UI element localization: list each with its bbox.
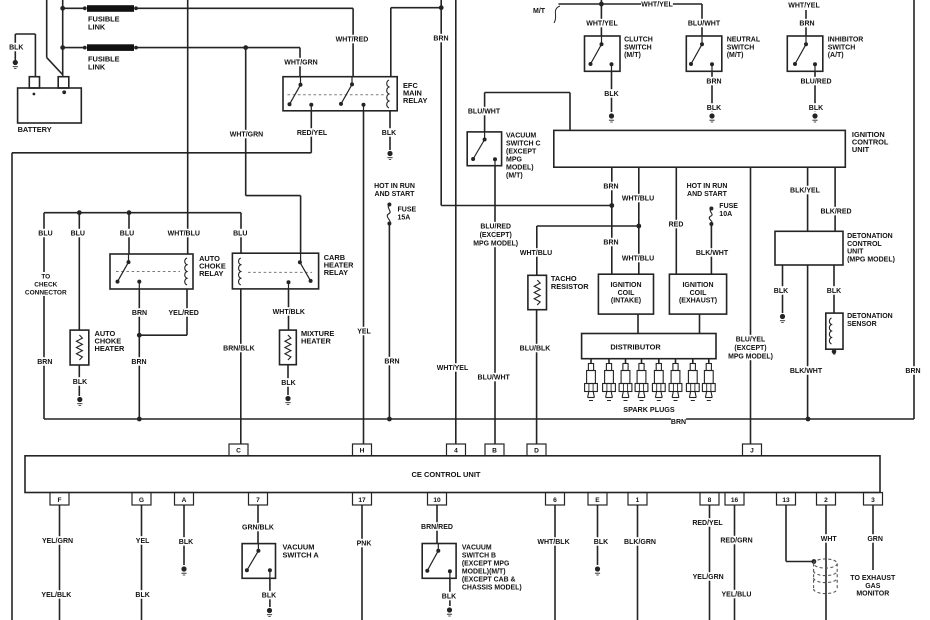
svg-text:(EXCEPT): (EXCEPT) <box>734 345 766 352</box>
svg-text:BLK: BLK <box>179 539 193 546</box>
svg-text:YEL/RED: YEL/RED <box>169 310 199 317</box>
svg-text:BLK: BLK <box>809 105 823 112</box>
svg-text:BRN: BRN <box>384 359 399 366</box>
svg-text:WHT/YEL: WHT/YEL <box>641 2 673 9</box>
svg-text:YEL: YEL <box>357 329 371 336</box>
svg-text:HEATER: HEATER <box>95 344 125 353</box>
svg-text:7: 7 <box>256 497 260 504</box>
svg-text:J: J <box>750 448 754 455</box>
svg-text:BRN: BRN <box>671 419 686 426</box>
svg-text:MODEL): MODEL) <box>506 165 534 172</box>
svg-text:RED/YEL: RED/YEL <box>692 520 723 527</box>
svg-text:CLUTCH: CLUTCH <box>624 37 653 44</box>
svg-text:SWITCH A: SWITCH A <box>283 550 320 559</box>
svg-text:RED: RED <box>669 222 684 229</box>
svg-text:VACUUM: VACUUM <box>462 545 492 552</box>
svg-text:BLK: BLK <box>604 91 618 98</box>
svg-text:BRN: BRN <box>131 359 146 366</box>
svg-text:A: A <box>182 497 187 504</box>
svg-text:MPG MODEL): MPG MODEL) <box>473 241 518 248</box>
svg-text:10A: 10A <box>719 211 732 218</box>
svg-text:C: C <box>236 448 241 455</box>
svg-text:TO EXHAUST: TO EXHAUST <box>850 575 896 582</box>
svg-text:(EXHAUST): (EXHAUST) <box>679 298 717 305</box>
svg-text:CONTROL: CONTROL <box>847 241 882 248</box>
svg-text:(EXCEPT CAB &: (EXCEPT CAB & <box>462 577 516 584</box>
svg-text:RELAY: RELAY <box>199 269 223 278</box>
svg-text:DISTRIBUTOR: DISTRIBUTOR <box>610 343 661 352</box>
svg-text:BLK/YEL: BLK/YEL <box>790 188 821 195</box>
svg-text:17: 17 <box>358 497 366 504</box>
svg-text:WHT/GRN: WHT/GRN <box>284 60 317 67</box>
svg-text:(INTAKE): (INTAKE) <box>611 298 641 305</box>
svg-text:HEATER: HEATER <box>301 337 331 346</box>
svg-text:3: 3 <box>871 497 875 504</box>
svg-text:BLK/WHT: BLK/WHT <box>790 368 823 375</box>
svg-text:BLK: BLK <box>281 380 295 387</box>
svg-text:BLU/RED: BLU/RED <box>480 224 511 231</box>
svg-text:INHIBITOR: INHIBITOR <box>828 37 864 44</box>
svg-text:FUSE: FUSE <box>398 207 417 214</box>
svg-text:CHECK: CHECK <box>34 281 57 288</box>
svg-text:RELAY: RELAY <box>324 268 348 277</box>
svg-text:BLU/WHT: BLU/WHT <box>468 109 501 116</box>
svg-text:BLK: BLK <box>73 379 87 386</box>
svg-text:LINK: LINK <box>88 62 106 71</box>
svg-text:WHT/BLK: WHT/BLK <box>537 539 569 546</box>
svg-text:RED/YEL: RED/YEL <box>297 130 328 137</box>
svg-text:BLU/BLK: BLU/BLK <box>520 346 551 353</box>
svg-text:BRN/BLK: BRN/BLK <box>223 346 255 353</box>
svg-text:DETONATION: DETONATION <box>847 313 893 320</box>
svg-text:BLU: BLU <box>38 231 52 238</box>
svg-text:CHASSIS MODEL): CHASSIS MODEL) <box>462 585 522 592</box>
svg-text:VACUUM: VACUUM <box>506 133 536 140</box>
svg-text:IGNITION: IGNITION <box>610 282 641 289</box>
svg-text:10: 10 <box>433 497 441 504</box>
svg-text:BLK: BLK <box>827 288 841 295</box>
svg-text:AND START: AND START <box>375 191 416 198</box>
svg-text:BRN/RED: BRN/RED <box>421 524 453 531</box>
svg-text:SWITCH: SWITCH <box>828 44 856 51</box>
svg-text:WHT/BLU: WHT/BLU <box>168 231 200 238</box>
svg-text:SENSOR: SENSOR <box>847 321 877 328</box>
svg-text:WHT/BLU: WHT/BLU <box>622 256 654 263</box>
svg-text:RESISTOR: RESISTOR <box>551 282 589 291</box>
svg-text:BRN: BRN <box>132 310 147 317</box>
svg-text:(EXCEPT): (EXCEPT) <box>480 232 512 239</box>
svg-text:BLK/GRN: BLK/GRN <box>624 539 656 546</box>
svg-text:BLK: BLK <box>9 45 23 52</box>
svg-text:WHT: WHT <box>821 536 838 543</box>
svg-text:MODEL)(M/T): MODEL)(M/T) <box>462 569 506 576</box>
svg-text:BATTERY: BATTERY <box>18 125 52 134</box>
svg-text:BLU/WHT: BLU/WHT <box>688 21 721 28</box>
svg-text:BRN: BRN <box>603 240 618 247</box>
svg-text:SWITCH: SWITCH <box>624 44 652 51</box>
svg-text:CE CONTROL UNIT: CE CONTROL UNIT <box>411 470 480 479</box>
svg-text:LINK: LINK <box>88 22 106 31</box>
svg-text:F: F <box>57 497 61 504</box>
svg-text:(M/T): (M/T) <box>624 52 641 59</box>
svg-text:HOT IN RUN: HOT IN RUN <box>374 183 415 190</box>
svg-text:WHT/BLK: WHT/BLK <box>273 309 305 316</box>
svg-text:PNK: PNK <box>357 541 372 548</box>
svg-text:TO: TO <box>41 273 50 280</box>
svg-text:(M/T): (M/T) <box>506 173 523 180</box>
svg-text:13: 13 <box>782 497 790 504</box>
svg-text:BLK: BLK <box>442 594 456 601</box>
svg-text:BLK/WHT: BLK/WHT <box>696 250 729 257</box>
svg-text:BRN: BRN <box>37 359 52 366</box>
svg-text:(M/T): (M/T) <box>727 52 744 59</box>
svg-text:GRN: GRN <box>867 536 883 543</box>
svg-text:RELAY: RELAY <box>403 96 427 105</box>
svg-text:IGNITION: IGNITION <box>682 282 713 289</box>
svg-text:BLK: BLK <box>774 288 788 295</box>
svg-text:BLU/WHT: BLU/WHT <box>478 375 511 382</box>
svg-text:YEL: YEL <box>136 538 150 545</box>
svg-text:YEL/BLU: YEL/BLU <box>722 592 752 599</box>
svg-text:BLK: BLK <box>594 539 608 546</box>
svg-text:E: E <box>595 497 600 504</box>
svg-text:FUSE: FUSE <box>719 203 738 210</box>
svg-text:HOT IN RUN: HOT IN RUN <box>687 183 728 190</box>
svg-text:SWITCH B: SWITCH B <box>462 553 496 560</box>
svg-text:COIL: COIL <box>618 290 635 297</box>
svg-text:G: G <box>139 497 144 504</box>
svg-text:15A: 15A <box>398 215 411 222</box>
svg-text:BLU/RED: BLU/RED <box>800 79 831 86</box>
svg-text:GAS: GAS <box>865 583 881 590</box>
svg-text:H: H <box>360 448 365 455</box>
svg-text:2: 2 <box>824 497 828 504</box>
svg-text:WHT/BLU: WHT/BLU <box>622 196 654 203</box>
svg-text:YEL/GRN: YEL/GRN <box>693 574 724 581</box>
svg-text:GRN/BLK: GRN/BLK <box>242 525 274 532</box>
svg-text:D: D <box>534 448 539 455</box>
svg-text:DETONATION: DETONATION <box>847 233 893 240</box>
svg-text:8: 8 <box>708 497 712 504</box>
svg-text:1: 1 <box>636 497 640 504</box>
svg-text:NEUTRAL: NEUTRAL <box>727 37 761 44</box>
svg-text:BLU: BLU <box>71 231 85 238</box>
svg-text:YEL/GRN: YEL/GRN <box>42 538 73 545</box>
svg-text:WHT/RED: WHT/RED <box>336 37 369 44</box>
svg-text:YEL/BLK: YEL/BLK <box>41 592 71 599</box>
svg-text:BLU/YEL: BLU/YEL <box>736 337 765 344</box>
svg-text:(MPG MODEL): (MPG MODEL) <box>847 256 895 263</box>
svg-text:WHT/BLU: WHT/BLU <box>520 250 552 257</box>
svg-text:BRN: BRN <box>905 368 920 375</box>
svg-text:B: B <box>492 448 497 455</box>
svg-text:BLU: BLU <box>120 231 134 238</box>
svg-text:SPARK PLUGS: SPARK PLUGS <box>623 405 675 414</box>
svg-text:CONNECTOR: CONNECTOR <box>25 289 67 296</box>
svg-text:WHT/YEL: WHT/YEL <box>788 3 820 10</box>
svg-text:MPG: MPG <box>506 157 523 164</box>
svg-text:UNIT: UNIT <box>852 145 870 154</box>
svg-text:UNIT: UNIT <box>847 249 864 256</box>
svg-text:BLK/RED: BLK/RED <box>820 209 851 216</box>
svg-text:MPG MODEL): MPG MODEL) <box>728 354 773 361</box>
svg-text:AND START: AND START <box>687 191 728 198</box>
svg-text:SWITCH C: SWITCH C <box>506 141 541 148</box>
svg-text:(EXCEPT: (EXCEPT <box>506 149 537 156</box>
svg-text:BLK: BLK <box>707 105 721 112</box>
svg-text:SWITCH: SWITCH <box>727 44 755 51</box>
svg-text:MONITOR: MONITOR <box>856 591 889 598</box>
svg-text:BRN: BRN <box>706 79 721 86</box>
svg-text:(EXCEPT MPG: (EXCEPT MPG <box>462 561 509 568</box>
svg-text:WHT/YEL: WHT/YEL <box>586 21 618 28</box>
svg-text:BRN: BRN <box>433 36 448 43</box>
svg-text:WHT/YEL: WHT/YEL <box>437 365 469 372</box>
svg-text:RED/GRN: RED/GRN <box>720 538 752 545</box>
svg-text:4: 4 <box>454 448 458 455</box>
svg-text:BLK: BLK <box>382 130 396 137</box>
svg-text:BLK: BLK <box>135 592 149 599</box>
svg-text:BLU: BLU <box>233 231 247 238</box>
svg-text:6: 6 <box>553 497 557 504</box>
svg-text:BLK: BLK <box>262 593 276 600</box>
svg-text:M/T: M/T <box>533 8 546 15</box>
svg-text:BRN: BRN <box>603 184 618 191</box>
svg-text:(A/T): (A/T) <box>828 52 844 59</box>
svg-text:WHT/GRN: WHT/GRN <box>230 132 263 139</box>
svg-text:BRN: BRN <box>799 21 814 28</box>
svg-text:16: 16 <box>731 497 739 504</box>
svg-text:COIL: COIL <box>690 290 707 297</box>
